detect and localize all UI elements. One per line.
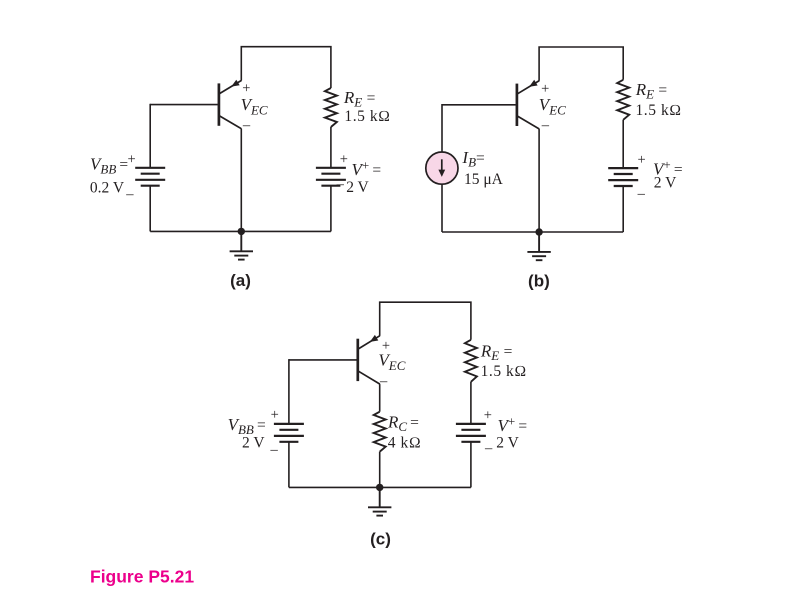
svg-text:1.5 kΩ: 1.5 kΩ [481, 363, 527, 380]
svg-text:2 V: 2 V [654, 174, 677, 191]
wire a: bottom rail [150, 230, 331, 232]
svg-text:–: – [125, 186, 134, 202]
wire a: collector down [240, 129, 242, 232]
wire c: collector to RC [379, 384, 381, 412]
wire a: VBB top lead [149, 104, 151, 168]
svg-text:1.5 kΩ: 1.5 kΩ [636, 102, 682, 119]
wire c: RC to bottom rail [379, 452, 381, 488]
wire b: bottom rail [442, 231, 623, 233]
svg-text:2 V: 2 V [242, 435, 265, 452]
battery V+ (a) 2 V [316, 168, 346, 186]
svg-text:+: + [128, 152, 136, 168]
transistor Q (b) (pnp) [517, 80, 539, 129]
resistor RE (b) 1.5 kohm [617, 80, 629, 120]
svg-text:+: + [484, 407, 492, 423]
svg-text:Figure P5.21: Figure P5.21 [90, 566, 194, 586]
svg-text:+: + [638, 152, 646, 168]
wire a: base lead [150, 104, 218, 106]
battery V+ (b) 2 V [608, 168, 638, 186]
svg-text:2 V: 2 V [346, 179, 369, 196]
svg-text:–: – [484, 440, 493, 456]
wire c: V+ battery to bottom rail [470, 442, 472, 488]
svg-text:+: + [271, 407, 279, 423]
wire b: collector down [538, 129, 540, 232]
wire c: base lead [289, 359, 357, 361]
wire c: VBB bottom lead [288, 442, 290, 488]
node: ground junction (b) [535, 228, 542, 235]
battery V+ (c) 2 V [456, 424, 486, 442]
wire c: VBB top lead [288, 359, 290, 424]
svg-text:(b): (b) [528, 271, 550, 290]
svg-text:–: – [336, 177, 345, 193]
svg-text:+: + [340, 152, 348, 168]
wire b: RE to V+ battery [622, 120, 624, 168]
node: ground junction (c) [376, 484, 383, 491]
wire b: V+ battery to bottom rail [622, 186, 624, 232]
wire b: current source bottom lead [441, 184, 443, 232]
ground (b) [527, 232, 550, 260]
svg-text:1.5 kΩ: 1.5 kΩ [344, 108, 390, 125]
current source IB (b) [426, 152, 458, 184]
svg-text:0.2 V: 0.2 V [90, 180, 125, 197]
battery VBB (c) 2 V [274, 424, 304, 442]
wire b: base lead [442, 104, 516, 106]
svg-text:–: – [541, 118, 550, 134]
transistor Q (c) (pnp) [358, 335, 380, 384]
ground (a) [230, 231, 253, 259]
wire c: RE to V+ battery [470, 382, 472, 424]
wire c: bottom rail [289, 486, 471, 488]
resistor RE (a) 1.5 kohm [325, 88, 337, 127]
wire a: VBB bottom lead [149, 186, 151, 232]
svg-text:15 μA: 15 μA [464, 171, 504, 188]
resistor RC (c) 4 kohm [374, 412, 386, 452]
svg-text:2 V: 2 V [496, 434, 519, 451]
svg-text:–: – [242, 117, 251, 133]
svg-text:4 kΩ: 4 kΩ [388, 434, 421, 451]
battery VBB (a) 0.2 V [135, 168, 165, 186]
svg-text:(c): (c) [370, 529, 391, 548]
wire b: emitter to RE top [539, 47, 623, 81]
wire a: RE to V+ battery [330, 127, 332, 168]
ground (c) [368, 487, 391, 515]
svg-text:–: – [637, 186, 646, 202]
wire b: current source top lead [441, 104, 443, 152]
svg-text:(a): (a) [230, 271, 251, 290]
wire c: emitter to RE top [380, 302, 471, 340]
transistor Q (a) (pnp) [219, 80, 242, 129]
svg-text:–: – [379, 373, 388, 389]
resistor RE (c) 1.5 kohm [465, 340, 477, 382]
wire a: V+ battery to bottom rail [330, 186, 332, 232]
wire a: emitter to RE top [241, 47, 331, 88]
node: ground junction (a) [238, 228, 245, 235]
svg-text:–: – [269, 442, 278, 458]
